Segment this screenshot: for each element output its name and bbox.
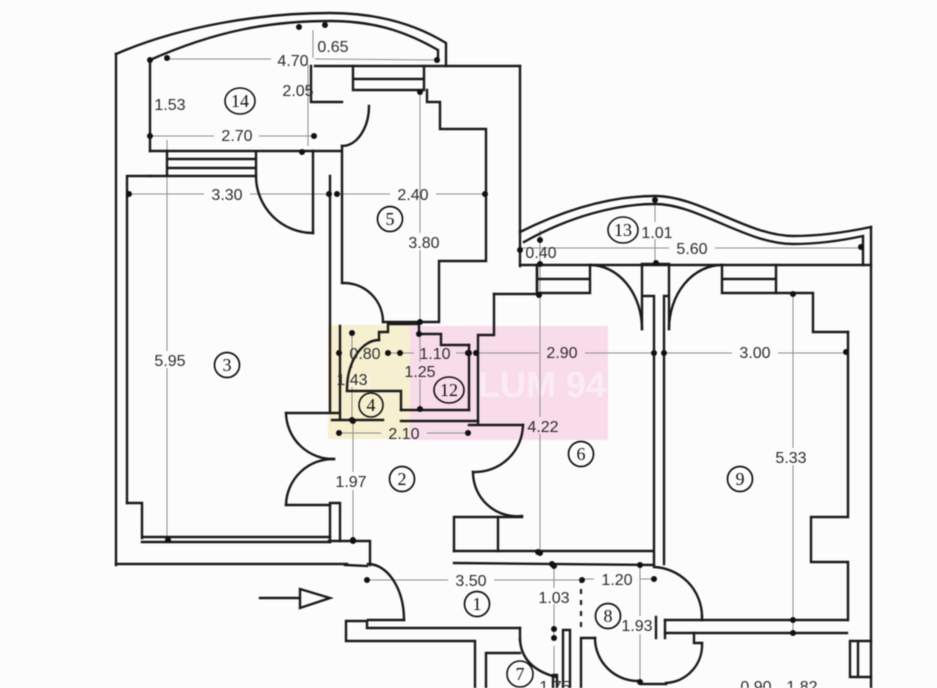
svg-text:5.33: 5.33 <box>775 450 806 467</box>
butterfly 2-6 stub top <box>469 424 523 426</box>
room label 6 <box>569 442 594 467</box>
room label 12 <box>434 377 464 403</box>
wall 8 east <box>656 616 702 638</box>
svg-text:2.40: 2.40 <box>397 187 428 204</box>
svg-text:2.10: 2.10 <box>388 426 419 443</box>
door 6 balcony arc <box>590 265 642 329</box>
butterfly 3-2 stub top <box>286 412 339 414</box>
svg-text:5.95: 5.95 <box>154 353 185 370</box>
dim line 3.50 <box>367 579 582 581</box>
balcony 14 inner arc <box>150 21 438 61</box>
svg-text:1.25: 1.25 <box>404 364 435 381</box>
butterfly 2-6 stub bottom <box>499 516 522 518</box>
room label 5 <box>378 207 403 232</box>
wall stub bottom B <box>694 633 702 643</box>
room 12 south wall <box>401 410 478 421</box>
dim line 2.05 <box>307 64 309 146</box>
butterfly 3-2 arc top <box>286 413 334 459</box>
svg-text:1.53: 1.53 <box>154 97 185 114</box>
balcony 13 outer wave <box>520 196 871 236</box>
room 1/6 band top <box>454 551 654 565</box>
room 3 bottom wall <box>127 503 330 542</box>
svg-text:8: 8 <box>604 606 613 626</box>
svg-text:7: 7 <box>516 664 525 684</box>
room label 1 <box>465 592 490 617</box>
svg-text:3.30: 3.30 <box>211 187 242 204</box>
balcony 14 outer arc <box>116 13 446 66</box>
room 9 north wall <box>776 293 848 332</box>
svg-text:1.82: 1.82 <box>786 679 817 688</box>
room 14 south wall right part <box>315 65 520 67</box>
dim line 5.33 <box>792 294 794 633</box>
svg-text:0.65: 0.65 <box>317 39 348 56</box>
svg-text:2.05: 2.05 <box>282 83 313 100</box>
dim line 3.00 <box>664 352 846 354</box>
svg-text:12: 12 <box>440 380 458 400</box>
room 4 bottom wall <box>332 419 383 421</box>
door 3-14 arc <box>256 176 313 233</box>
window room 3 top <box>150 151 313 176</box>
dim line 1.75 <box>553 646 555 678</box>
svg-text:1.75: 1.75 <box>539 679 570 688</box>
svg-text:14: 14 <box>231 91 249 111</box>
door 9 balcony arc <box>669 265 722 329</box>
room label 7 <box>507 661 533 687</box>
svg-text:6: 6 <box>577 444 586 464</box>
room 2 bottom wall <box>329 541 370 565</box>
svg-text:5.60: 5.60 <box>676 241 707 258</box>
balcony 13 inner wave <box>524 204 863 265</box>
room 14 left wall <box>149 60 151 151</box>
dimension texts <box>154 39 817 688</box>
wall below room 8 <box>581 638 595 688</box>
outer left wall <box>115 54 117 565</box>
door 7 arc <box>520 640 556 677</box>
svg-text:1.20: 1.20 <box>601 572 632 589</box>
outer bottom wall <box>116 563 347 565</box>
room 6 west wall <box>478 294 494 423</box>
room 12 east wall <box>468 345 470 410</box>
balcony 13 right end <box>870 227 872 688</box>
room label 8 <box>596 604 621 629</box>
svg-text:1.97: 1.97 <box>335 474 366 491</box>
butterfly 2-6 arc bottom <box>473 472 522 516</box>
balcony left pier <box>494 265 537 294</box>
svg-text:3.50: 3.50 <box>455 573 486 590</box>
svg-text:5: 5 <box>386 209 395 229</box>
wall block below room 2 <box>454 517 498 551</box>
dim line 5.60 <box>521 247 861 249</box>
room 9 east wall <box>811 332 848 620</box>
svg-text:9: 9 <box>736 469 745 489</box>
dim line 1.93 <box>639 567 641 682</box>
room label 14 <box>225 88 255 114</box>
dim line 3.30 <box>129 193 330 195</box>
room 5 west wall <box>313 146 342 412</box>
room 5 nook wall <box>311 66 342 102</box>
window 9 balcony <box>722 265 776 293</box>
entrance door arc <box>368 564 404 620</box>
room 3 top-left corner <box>127 176 150 503</box>
room label 3 <box>215 353 240 378</box>
opening dashed line room1-8 <box>580 578 582 632</box>
svg-text:4: 4 <box>367 395 376 415</box>
walls <box>116 13 871 688</box>
room 7 alcove <box>486 628 520 688</box>
svg-text:1.43: 1.43 <box>336 372 367 389</box>
dim line 1.53 <box>149 60 151 136</box>
door 3-14 leaf <box>312 151 314 233</box>
room label 4 <box>359 393 383 417</box>
svg-text:1.01: 1.01 <box>641 225 672 242</box>
room 4 south wall <box>347 391 401 410</box>
wall between bottom doors <box>641 683 666 685</box>
dim line 0.80 / 1.10 <box>386 352 468 354</box>
door arc bottom room A <box>595 638 638 681</box>
door 5 arc <box>342 106 369 146</box>
svg-text:LUM 94: LUM 94 <box>478 364 606 405</box>
svg-text:1.10: 1.10 <box>419 346 450 363</box>
building right wall upper <box>519 66 521 266</box>
window 6 balcony <box>537 265 590 293</box>
svg-text:1.93: 1.93 <box>621 618 652 635</box>
room label 9 <box>728 467 753 492</box>
door 8-9 arc <box>654 567 702 616</box>
room label 2 <box>390 467 415 492</box>
dim line 3.80 / 1.25 <box>419 92 421 409</box>
svg-text:0.80: 0.80 <box>349 346 380 363</box>
svg-text:2.70: 2.70 <box>221 128 252 145</box>
svg-text:1: 1 <box>473 594 482 614</box>
balcony 13 floor line <box>520 264 871 266</box>
entrance block <box>345 565 367 566</box>
svg-text:3.00: 3.00 <box>739 345 770 362</box>
entrance door leaf <box>368 619 404 621</box>
dim line 1.97 <box>352 421 354 540</box>
dim line 2.40 <box>339 193 485 195</box>
dim line 1.43 <box>351 333 353 420</box>
svg-text:1.03: 1.03 <box>538 590 569 607</box>
butterfly 3-2 stub bottom <box>286 504 330 506</box>
svg-text:4.22: 4.22 <box>527 419 558 436</box>
svg-text:13: 13 <box>614 220 632 240</box>
room label 13 <box>608 217 638 243</box>
svg-text:3.80: 3.80 <box>408 235 439 252</box>
arrow line <box>260 597 300 599</box>
watermark yellow region <box>328 325 410 439</box>
dim line 0.65 <box>312 30 314 58</box>
room 4 west wall <box>339 326 341 419</box>
butterfly 3-2 arc bottom <box>286 459 334 505</box>
svg-text:3: 3 <box>223 355 232 375</box>
svg-text:4.70: 4.70 <box>277 53 308 70</box>
room 14 sill pier <box>150 150 167 152</box>
dim line 2.90 <box>476 352 654 354</box>
butterfly 2-6 arc top <box>473 425 523 472</box>
arrow head <box>300 589 330 608</box>
svg-text:2.90: 2.90 <box>546 345 577 362</box>
dim line 1.01 <box>654 200 656 262</box>
window room 5 top <box>353 66 424 90</box>
wall pier right of room 7 <box>563 630 570 688</box>
dim line 0.40 vertical <box>539 230 541 295</box>
dim line 1.20 <box>582 578 654 580</box>
door 4 arc <box>347 340 379 390</box>
dimension dots <box>126 22 864 685</box>
dim line 1.03 <box>553 564 555 638</box>
dim line 4.70 <box>167 59 437 60</box>
dim line 2.10 <box>339 432 468 434</box>
right wall window box <box>850 641 871 677</box>
wall 6-9 pier <box>642 264 669 564</box>
dim line 4.22 <box>539 295 541 553</box>
room 1 bottom walls <box>346 621 520 688</box>
dim line 2.70 <box>150 135 313 137</box>
door arc bottom room B <box>666 643 702 683</box>
wall right of room 5 <box>383 90 486 322</box>
watermark pink region <box>410 326 608 440</box>
door 4 arc upper <box>344 283 383 322</box>
svg-text:2: 2 <box>398 469 407 489</box>
room 4/5 walls <box>379 324 469 345</box>
room 9 bottom wall <box>665 620 847 633</box>
dim line 5.95 <box>166 140 168 540</box>
svg-text:0.90: 0.90 <box>740 679 771 688</box>
room 3 east wall lower <box>330 503 340 542</box>
room 7 east wall <box>553 675 557 688</box>
room labels <box>215 88 753 687</box>
svg-text:0.40: 0.40 <box>525 245 556 262</box>
